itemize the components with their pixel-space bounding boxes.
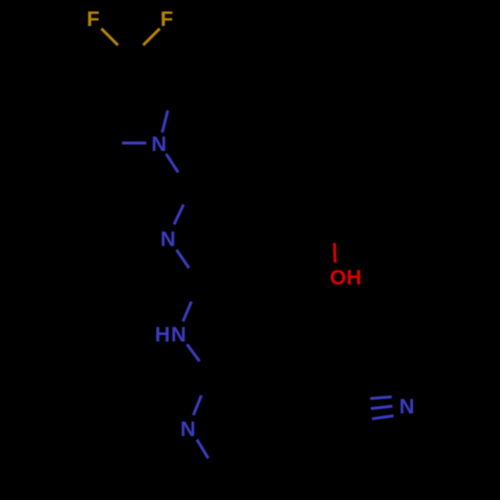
- bond C10-N11 (nitrogen half): [193, 395, 201, 415]
- bond C8-N9 (nitrogen half): [183, 302, 191, 322]
- bond C-O (oxygen half): [333, 243, 337, 263]
- triple bond C-N13 line 1 (nitrogen half): [370, 397, 392, 399]
- svg-text:N: N: [180, 418, 195, 441]
- bond N9-C10 (nitrogen half): [187, 344, 200, 361]
- bond C3-F2 (fluorine half): [143, 29, 160, 45]
- triple bond C-N13 line 3 (nitrogen half): [372, 416, 394, 419]
- svg-text:F: F: [87, 8, 100, 31]
- svg-text:H: H: [155, 324, 170, 347]
- svg-text:O: O: [330, 266, 346, 289]
- bond C3-F1 (fluorine half): [101, 29, 118, 45]
- svg-text:N: N: [399, 396, 414, 419]
- svg-text:N: N: [151, 133, 166, 156]
- svg-text:N: N: [171, 324, 186, 347]
- bond N1-C5 (nitrogen half): [122, 142, 146, 145]
- bond N7-C8 (nitrogen half): [177, 250, 190, 268]
- bond C6=N7 (nitrogen half): [174, 205, 184, 225]
- bond N1-C2 (nitrogen half): [162, 111, 168, 133]
- svg-text:F: F: [160, 8, 173, 31]
- svg-text:H: H: [346, 267, 361, 290]
- bond N11-C12 (nitrogen half): [197, 440, 208, 459]
- triple bond C-N13 line 2 (nitrogen half): [371, 406, 393, 408]
- bond N1-C6 (nitrogen half): [166, 154, 178, 173]
- svg-text:N: N: [160, 228, 175, 251]
